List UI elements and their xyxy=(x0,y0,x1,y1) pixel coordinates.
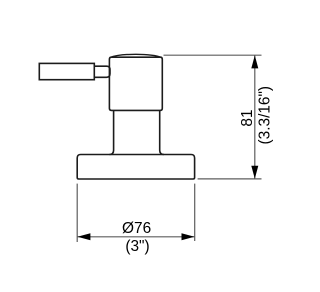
handle stub connector xyxy=(94,66,110,77)
handle lever grip xyxy=(39,63,94,79)
arrowhead right (diameter dim) xyxy=(182,233,195,240)
svg-text:(3"): (3") xyxy=(125,238,149,255)
dome arc on body top xyxy=(110,54,163,57)
extension line top (from body top to height dimension) xyxy=(164,54,262,56)
arrowhead up (height dim top) xyxy=(251,55,258,68)
vertical dimension line (81) xyxy=(254,55,256,179)
svg-text:Ø76: Ø76 xyxy=(122,220,151,237)
svg-text:81: 81 xyxy=(239,109,256,126)
arrowhead down (height dim bottom) xyxy=(251,166,258,179)
extension line bottom-right (from base to diameter dimension) xyxy=(194,184,196,241)
extension line bottom-right (from base bottom to height dimension) xyxy=(198,178,262,180)
arrowhead left (diameter dim) xyxy=(77,233,90,240)
valve body cylinder xyxy=(109,57,162,110)
svg-text:(3.3/16"): (3.3/16") xyxy=(256,86,273,145)
stem xyxy=(109,110,163,154)
extension line bottom-left (from base to diameter dimension) xyxy=(76,184,78,242)
horizontal dimension line (diameter 76) xyxy=(77,236,195,238)
base flange xyxy=(77,155,194,180)
